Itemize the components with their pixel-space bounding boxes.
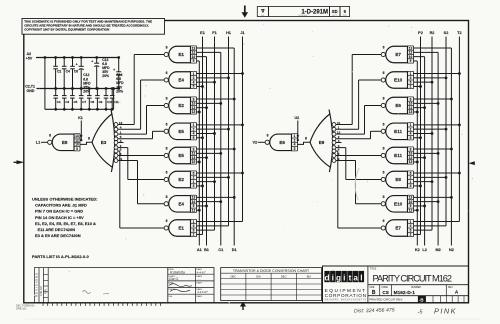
wire input net C1 bbox=[197, 52, 223, 245]
svg-text:4: 4 bbox=[193, 184, 195, 188]
svg-text:C5: C5 bbox=[74, 100, 78, 104]
svg-text:EIA: EIA bbox=[256, 274, 261, 278]
svg-text:DATE: DATE bbox=[196, 282, 202, 285]
wire input net D1 bbox=[197, 48, 236, 245]
svg-text:E1: E1 bbox=[200, 31, 205, 35]
svg-text:T2: T2 bbox=[457, 31, 461, 35]
scan artifact line bbox=[25, 318, 480, 320]
svg-text:M2: M2 bbox=[435, 248, 440, 252]
node S2 label bbox=[444, 31, 449, 35]
svg-text:REV.: REV. bbox=[448, 287, 454, 289]
svg-text:DATE: DATE bbox=[196, 295, 202, 298]
svg-text:8: 8 bbox=[383, 195, 385, 199]
capacitor C11 bbox=[110, 87, 119, 111]
gate E4 row2 left bbox=[164, 71, 196, 89]
svg-text:4-4-67: 4-4-67 bbox=[197, 271, 206, 275]
svg-text:CAPACITORS ARE .01 MFD: CAPACITORS ARE .01 MFD bbox=[35, 203, 87, 208]
svg-text:6: 6 bbox=[166, 71, 168, 75]
svg-text:PARITY CIRCUIT M162: PARITY CIRCUIT M162 bbox=[373, 274, 453, 284]
capacitor C10 bbox=[104, 87, 113, 111]
svg-text:SD: SD bbox=[332, 9, 338, 14]
svg-text:E2: E2 bbox=[178, 177, 184, 182]
sheet outline bbox=[24, 21, 469, 303]
svg-text:L1: L1 bbox=[36, 141, 40, 145]
node K2 label bbox=[415, 248, 420, 252]
wire input net A1 bbox=[197, 61, 201, 246]
svg-text:Dist: 324 456 475: Dist: 324 456 475 bbox=[354, 307, 395, 314]
svg-text:E1, E2, E4, E5, E6, E7, E8, E1: E1, E2, E4, E5, E6, E7, E8, E10 & bbox=[35, 221, 96, 226]
wire left ladder end bbox=[44, 56, 47, 109]
svg-text:13: 13 bbox=[409, 110, 413, 114]
wire input net M2 bbox=[414, 52, 440, 245]
gate E1 row8 left bbox=[164, 219, 196, 237]
gate E7 row8 right bbox=[381, 219, 413, 237]
capacitor C13 bbox=[91, 56, 110, 90]
svg-text:E8: E8 bbox=[62, 140, 68, 145]
svg-text:GND: GND bbox=[27, 89, 35, 93]
svg-text:.....: ..... bbox=[197, 277, 201, 281]
svg-text:12: 12 bbox=[409, 209, 413, 213]
digital logo bbox=[324, 271, 366, 302]
svg-text:REV.: REV. bbox=[45, 288, 48, 294]
svg-text:E9: E9 bbox=[319, 140, 325, 145]
registration arrow down bbox=[242, 6, 249, 18]
node E1 label bbox=[200, 31, 205, 35]
svg-text:R.Ballotta: R.Ballotta bbox=[170, 270, 185, 274]
svg-text:E8: E8 bbox=[395, 177, 401, 182]
svg-text:E10: E10 bbox=[394, 78, 403, 83]
svg-text:PINK: PINK bbox=[434, 307, 457, 316]
capacitor C12 bbox=[76, 56, 91, 94]
capacitor C5 bbox=[70, 87, 78, 111]
svg-text:C8: C8 bbox=[90, 100, 94, 104]
wire input net L2 bbox=[414, 57, 427, 246]
svg-text:H1: H1 bbox=[226, 31, 231, 35]
svg-text:ARL: ARL bbox=[261, 14, 265, 17]
wire right gate row8 output to expander input 7 bbox=[336, 151, 381, 228]
svg-text:8: 8 bbox=[166, 97, 168, 101]
svg-text:CORPORATION: CORPORATION bbox=[325, 293, 367, 299]
svg-text:PRINTED CIRCUIT REV.: PRINTED CIRCUIT REV. bbox=[369, 297, 403, 301]
svg-text:NUMBER: NUMBER bbox=[411, 287, 421, 289]
note unless-otherwise-indicated bbox=[32, 197, 97, 239]
svg-text:8: 8 bbox=[166, 46, 168, 50]
wire right ladder end bbox=[112, 87, 115, 109]
node U2 terminal bbox=[295, 116, 300, 141]
wire right gate row1 output to expander input 1 bbox=[336, 55, 381, 125]
node D1 label bbox=[232, 248, 237, 252]
svg-text:TRANSISTOR & DIODE CONVERSION: TRANSISTOR & DIODE CONVERSION CHART bbox=[233, 269, 310, 273]
svg-text:E6: E6 bbox=[395, 103, 401, 108]
handwritten signatures bbox=[169, 270, 208, 293]
svg-text:9: 9 bbox=[410, 59, 412, 63]
svg-text:C3: C3 bbox=[65, 100, 69, 104]
svg-text:UNLESS OTHERWISE INDICATED:: UNLESS OTHERWISE INDICATED: bbox=[32, 197, 97, 202]
wire right gate row7 output to expander input 9 bbox=[336, 161, 381, 204]
svg-text:l: l bbox=[360, 272, 362, 282]
svg-text:C1: C1 bbox=[57, 100, 61, 104]
capacitor C3 bbox=[62, 87, 70, 111]
svg-text:8: 8 bbox=[166, 195, 168, 199]
svg-text:J1: J1 bbox=[240, 31, 244, 35]
svg-text:A1: A1 bbox=[197, 248, 202, 252]
gate E4 row7 left bbox=[164, 195, 196, 213]
gate E10 row7 right bbox=[381, 195, 413, 213]
svg-text:8: 8 bbox=[49, 134, 51, 138]
gate E2 row3 left bbox=[164, 97, 196, 115]
svg-text:6: 6 bbox=[383, 123, 385, 127]
capacitor C6 bbox=[70, 56, 78, 90]
registration arrow right border bbox=[469, 161, 475, 165]
svg-text:E7: E7 bbox=[395, 226, 401, 231]
svg-text:10: 10 bbox=[192, 160, 196, 164]
svg-text:N2: N2 bbox=[449, 248, 454, 252]
svg-text:C1: C1 bbox=[218, 248, 223, 252]
svg-text:C4: C4 bbox=[66, 70, 70, 74]
svg-text:E3 & E9 ARE DEC7430N: E3 & E9 ARE DEC7430N bbox=[35, 233, 81, 238]
capacitor C2 bbox=[53, 56, 61, 90]
gate E1 row1 left bbox=[164, 46, 196, 64]
svg-text:+: + bbox=[113, 68, 115, 72]
svg-text:U2: U2 bbox=[295, 116, 300, 120]
node R2 label bbox=[430, 31, 435, 35]
gate E11 row4 right bbox=[381, 123, 413, 141]
wire left gate row2 output to expander input 2 bbox=[118, 80, 164, 129]
node H1 label bbox=[226, 31, 231, 35]
svg-text:E11: E11 bbox=[394, 129, 402, 134]
svg-text:Gar.G.: Gar.G. bbox=[169, 277, 179, 281]
gate E8 output NAND bbox=[48, 134, 80, 152]
svg-text:C2: C2 bbox=[57, 70, 61, 74]
wire input net H1 bbox=[197, 37, 230, 226]
wire left gate row1 output to expander input 1 bbox=[118, 55, 164, 125]
svg-text:K1: K1 bbox=[78, 116, 83, 120]
svg-text:2: 2 bbox=[410, 85, 412, 89]
node F1 label bbox=[212, 31, 216, 35]
chart arrow up bbox=[240, 302, 246, 310]
svg-text:E5: E5 bbox=[178, 129, 184, 134]
wire input net K2 bbox=[414, 61, 419, 246]
wire right gate row6 output to expander input 6 bbox=[336, 148, 381, 180]
svg-text:C11: C11 bbox=[113, 100, 119, 104]
svg-text:i: i bbox=[332, 272, 334, 282]
svg-text:+5V: +5V bbox=[26, 56, 33, 60]
svg-text:5: 5 bbox=[193, 136, 195, 140]
svg-text:8: 8 bbox=[166, 147, 168, 151]
svg-text:i: i bbox=[343, 272, 345, 282]
gate E11 row5 right bbox=[381, 147, 413, 165]
svg-text:a: a bbox=[353, 272, 358, 282]
note parts list bbox=[32, 254, 89, 259]
wire right gate row2 output to expander input 2 bbox=[336, 80, 381, 129]
svg-text:2: 2 bbox=[193, 233, 195, 237]
node B1 label bbox=[204, 248, 209, 252]
svg-text:6: 6 bbox=[166, 123, 168, 127]
svg-text:V2: V2 bbox=[253, 141, 258, 145]
svg-text:DEC: DEC bbox=[230, 274, 236, 278]
svg-text:NUMBER: NUMBER bbox=[299, 15, 308, 17]
wire left gate row7 output to expander input 9 bbox=[118, 161, 164, 204]
svg-text:+: + bbox=[76, 63, 78, 67]
svg-text:C6: C6 bbox=[74, 70, 78, 74]
gate E2 row6 left bbox=[164, 171, 196, 189]
wire left gate row6 output to expander input 6 bbox=[118, 148, 164, 180]
svg-text:13: 13 bbox=[192, 110, 196, 114]
svg-text:ISS.: ISS. bbox=[169, 296, 174, 298]
svg-text:E5: E5 bbox=[178, 153, 184, 158]
svg-text:6: 6 bbox=[383, 219, 385, 223]
svg-text:E4: E4 bbox=[178, 201, 184, 206]
svg-text:E2: E2 bbox=[178, 103, 184, 108]
node C1 label bbox=[218, 248, 223, 252]
svg-text:S2: S2 bbox=[444, 31, 449, 35]
wire input net F1 bbox=[197, 37, 216, 231]
svg-text:PIN 7 ON EACH IC = GND: PIN 7 ON EACH IC = GND bbox=[35, 209, 83, 214]
wire input net E1 bbox=[197, 37, 204, 235]
capacitor C14 bbox=[113, 56, 124, 93]
svg-text:9: 9 bbox=[76, 147, 78, 151]
svg-text:4: 4 bbox=[410, 184, 412, 188]
svg-text:9: 9 bbox=[193, 59, 195, 63]
wire right expander input 5 stub bbox=[336, 142, 342, 144]
svg-text:6: 6 bbox=[166, 171, 168, 175]
op-amp-style 8-input gate E9 bbox=[310, 110, 341, 173]
node L1 terminal bbox=[36, 141, 48, 145]
svg-text:REVISIONS: REVISIONS bbox=[34, 273, 38, 297]
node A1 label bbox=[197, 248, 202, 252]
pencil smudge arc bbox=[355, 168, 359, 200]
paper speckle bbox=[34, 24, 473, 304]
wire right gate row3 output to expander input 3 bbox=[336, 106, 381, 135]
svg-text:8: 8 bbox=[383, 147, 385, 151]
GND rail bbox=[37, 88, 119, 90]
svg-text:E1: E1 bbox=[178, 52, 184, 57]
svg-text:E11 ARE DEC7420N: E11 ARE DEC7420N bbox=[38, 227, 76, 232]
signature table bbox=[168, 268, 214, 303]
revisions table bbox=[34, 268, 168, 303]
wire left gate row4 output to expander input 4 bbox=[118, 131, 164, 139]
wire input net N2 bbox=[414, 48, 453, 245]
svg-text:5: 5 bbox=[193, 85, 195, 89]
gate E5 row4 left bbox=[164, 123, 196, 141]
svg-text:R2: R2 bbox=[430, 31, 435, 35]
node N2 label bbox=[449, 248, 454, 252]
svg-text:E1: E1 bbox=[178, 226, 184, 231]
node M2 label bbox=[435, 248, 440, 252]
capacitor C7 bbox=[79, 87, 87, 111]
svg-text:5: 5 bbox=[294, 147, 296, 151]
svg-text:E4: E4 bbox=[178, 78, 184, 83]
wire E9 output to E6 inputs bbox=[298, 137, 311, 145]
svg-text:C9: C9 bbox=[99, 100, 103, 104]
svg-text:12: 12 bbox=[192, 209, 196, 213]
wire input net T2 bbox=[414, 37, 461, 222]
svg-text:DECO: DECO bbox=[332, 15, 338, 17]
op-amp-style 8-input gate E3 bbox=[92, 110, 123, 173]
svg-text:13: 13 bbox=[409, 160, 413, 164]
svg-text:20%: 20% bbox=[116, 89, 123, 93]
svg-text:8: 8 bbox=[88, 137, 90, 141]
wire left gate row5 output to expander input 8 bbox=[118, 155, 164, 157]
svg-text:g: g bbox=[336, 272, 341, 282]
svg-text:PARTS LIST IS A-PL-M162-0-0: PARTS LIST IS A-PL-M162-0-0 bbox=[32, 254, 89, 259]
svg-text:E11: E11 bbox=[394, 153, 402, 158]
wire right gate row5 output to expander input 8 bbox=[336, 155, 381, 157]
svg-text:TITLE: TITLE bbox=[370, 267, 377, 270]
node C2,T1 GND label bbox=[25, 85, 35, 93]
svg-text:PIN 14 ON EACH IC = +5V: PIN 14 ON EACH IC = +5V bbox=[35, 215, 84, 220]
svg-text:P2: P2 bbox=[418, 31, 423, 35]
svg-text:6: 6 bbox=[166, 219, 168, 223]
svg-text:M162-D-1: M162-D-1 bbox=[394, 290, 416, 296]
svg-text:CHG NO.: CHG NO. bbox=[40, 285, 43, 296]
svg-text:E3: E3 bbox=[101, 140, 107, 145]
svg-text:DRB 102: DRB 102 bbox=[16, 307, 27, 311]
svg-text:CODE: CODE bbox=[381, 287, 388, 289]
node K1 terminal bbox=[78, 116, 83, 141]
svg-text:+: + bbox=[91, 59, 93, 63]
wire input net P2 bbox=[414, 37, 422, 235]
gate E5 row5 left bbox=[164, 147, 196, 165]
drawing number strip bbox=[257, 7, 349, 18]
gate E10 row2 right bbox=[381, 71, 413, 89]
svg-text:L2: L2 bbox=[422, 248, 426, 252]
svg-text:K2: K2 bbox=[415, 248, 420, 252]
node L2 label bbox=[422, 248, 426, 252]
node J1 label bbox=[240, 31, 244, 35]
wire left expander input 5 stub bbox=[118, 142, 124, 144]
+5V rail bbox=[36, 57, 119, 59]
wire input net J1 bbox=[197, 37, 244, 222]
wire E3 output to E8 inputs bbox=[80, 137, 92, 145]
wire left gate row3 output to expander input 3 bbox=[118, 106, 164, 135]
svg-text:6: 6 bbox=[383, 46, 385, 50]
svg-text:F1: F1 bbox=[212, 31, 216, 35]
registration arrow left border bbox=[14, 160, 25, 164]
svg-text:B: B bbox=[372, 290, 376, 296]
capacitor C1 bbox=[53, 87, 61, 111]
svg-text:E6: E6 bbox=[279, 140, 285, 145]
capacitor C9 bbox=[95, 87, 103, 111]
svg-text:6: 6 bbox=[383, 71, 385, 75]
gate E8 row6 right bbox=[381, 171, 413, 189]
gate E6 output NAND bbox=[265, 134, 297, 152]
svg-text:6: 6 bbox=[383, 171, 385, 175]
svg-text:6: 6 bbox=[267, 134, 269, 138]
transistor-diode conversion chart bbox=[221, 268, 322, 301]
wire input net S2 bbox=[414, 37, 448, 226]
wire left gate row8 output to expander input 7 bbox=[118, 151, 164, 228]
svg-text:MAYNARD, MASSACHUSETTS: MAYNARD, MASSACHUSETTS bbox=[325, 298, 367, 301]
svg-text:C7: C7 bbox=[82, 100, 86, 104]
capacitor C4 bbox=[62, 56, 70, 90]
svg-text:8: 8 bbox=[305, 137, 307, 141]
title block bbox=[323, 266, 469, 303]
wire input net B1 bbox=[197, 57, 208, 246]
node T2 label bbox=[457, 31, 461, 35]
svg-text:SIZE: SIZE bbox=[369, 287, 375, 289]
wire right gate row4 output to expander input 4 bbox=[336, 131, 381, 139]
svg-text:DEC: DEC bbox=[281, 274, 287, 278]
capacitor C8 bbox=[87, 87, 95, 111]
gate E7 row1 right bbox=[381, 46, 413, 64]
svg-text:8: 8 bbox=[383, 97, 385, 101]
border tick marks bbox=[43, 303, 161, 306]
svg-text:EIA: EIA bbox=[307, 274, 312, 278]
svg-text:COPYRIGHT 1967 BY DIGITAL EQUI: COPYRIGHT 1967 BY DIGITAL EQUIPMENT CORP… bbox=[24, 28, 109, 32]
wire input net R2 bbox=[414, 37, 434, 231]
+5V return rail (bottom) bbox=[45, 108, 114, 110]
svg-text:D1: D1 bbox=[232, 248, 237, 252]
svg-text:E7: E7 bbox=[395, 52, 401, 57]
node A2 +5V label bbox=[26, 52, 33, 60]
svg-text:B1: B1 bbox=[204, 248, 209, 252]
node V2 terminal bbox=[253, 141, 266, 145]
copyright notice box bbox=[22, 19, 165, 35]
svg-text:t: t bbox=[349, 272, 352, 282]
svg-text:4-14-67: 4-14-67 bbox=[197, 290, 208, 294]
svg-text:E10: E10 bbox=[394, 201, 403, 206]
node P2 label bbox=[418, 31, 423, 35]
svg-text:20%: 20% bbox=[102, 74, 109, 78]
svg-text:d: d bbox=[325, 272, 330, 282]
footer DEC form number bbox=[16, 303, 35, 310]
handwritten distribution note bbox=[354, 307, 457, 316]
gate E6 row3 right bbox=[381, 97, 413, 115]
svg-text:5: 5 bbox=[410, 136, 412, 140]
handwritten revision marks bbox=[83, 291, 110, 295]
svg-text:CS: CS bbox=[382, 290, 388, 295]
svg-text:2: 2 bbox=[410, 233, 412, 237]
